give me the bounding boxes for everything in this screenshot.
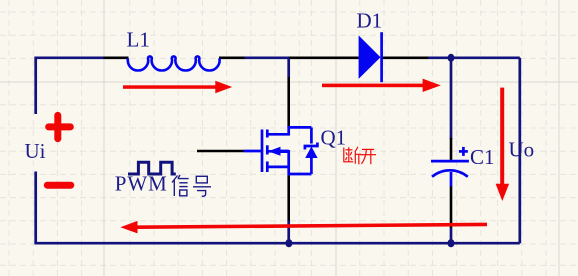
current arrow through L1 bbox=[123, 81, 232, 94]
wire: right vertical navy bbox=[518, 58, 521, 243]
current arrow through D1 bbox=[322, 79, 441, 92]
wire: black C1 top pin bbox=[450, 138, 453, 160]
transistor Q1 bbox=[262, 127, 317, 174]
label 开 (hand-drawn glyph, red) bbox=[360, 149, 376, 164]
wire: black drain vertical of Q1 bbox=[287, 58, 290, 77]
current arrow down to load Uo bbox=[496, 88, 510, 201]
wire: bottom return navy bbox=[34, 242, 519, 245]
node junction top bbox=[448, 54, 455, 62]
svg-text:D1: D1 bbox=[357, 9, 383, 33]
wire: navy bottom of Q1 source bbox=[287, 220, 290, 243]
source minus symbol bbox=[47, 182, 71, 189]
return current arrow bottom bbox=[120, 221, 487, 234]
svg-text:Q1: Q1 bbox=[321, 126, 347, 150]
wire: top right navy segment with corner bbox=[428, 56, 520, 59]
capacitor C1 bbox=[431, 147, 469, 187]
wire: black segment before L1 bbox=[104, 56, 129, 59]
wire: black top segment to D1 anode bbox=[289, 56, 359, 59]
wire: black source vertical of Q1 bbox=[287, 175, 290, 220]
wire: black segment after L1 bbox=[219, 56, 245, 59]
svg-text:C1: C1 bbox=[470, 145, 495, 169]
PWM waveform symbol bbox=[128, 162, 176, 174]
svg-text:Uo: Uo bbox=[509, 138, 535, 162]
diode D1 bbox=[359, 35, 381, 79]
svg-text:L1: L1 bbox=[127, 28, 150, 52]
wire: navy segment between inductor and drain tap bbox=[245, 56, 290, 59]
label 信 (hand-drawn glyph) bbox=[172, 175, 189, 196]
wire: left/top navy loop of source Ui bbox=[36, 58, 104, 243]
source plus symbol bbox=[49, 115, 71, 138]
inductor L1 bbox=[128, 56, 220, 70]
label 号 (hand-drawn glyph) bbox=[193, 176, 211, 196]
wire: navy vertical from top node down to C1 bbox=[450, 58, 453, 139]
svg-text:PWM: PWM bbox=[115, 172, 168, 196]
wire: black segment D1 cathode to node bbox=[383, 56, 429, 59]
node junction bottom right bbox=[448, 239, 455, 247]
wire: black C1 bottom pin bbox=[450, 186, 453, 228]
svg-text:Ui: Ui bbox=[25, 139, 46, 163]
node junction bottom left bbox=[285, 239, 292, 247]
label 断 (hand-drawn glyph, red) bbox=[344, 147, 362, 165]
wire: black gate lead bbox=[197, 150, 244, 153]
